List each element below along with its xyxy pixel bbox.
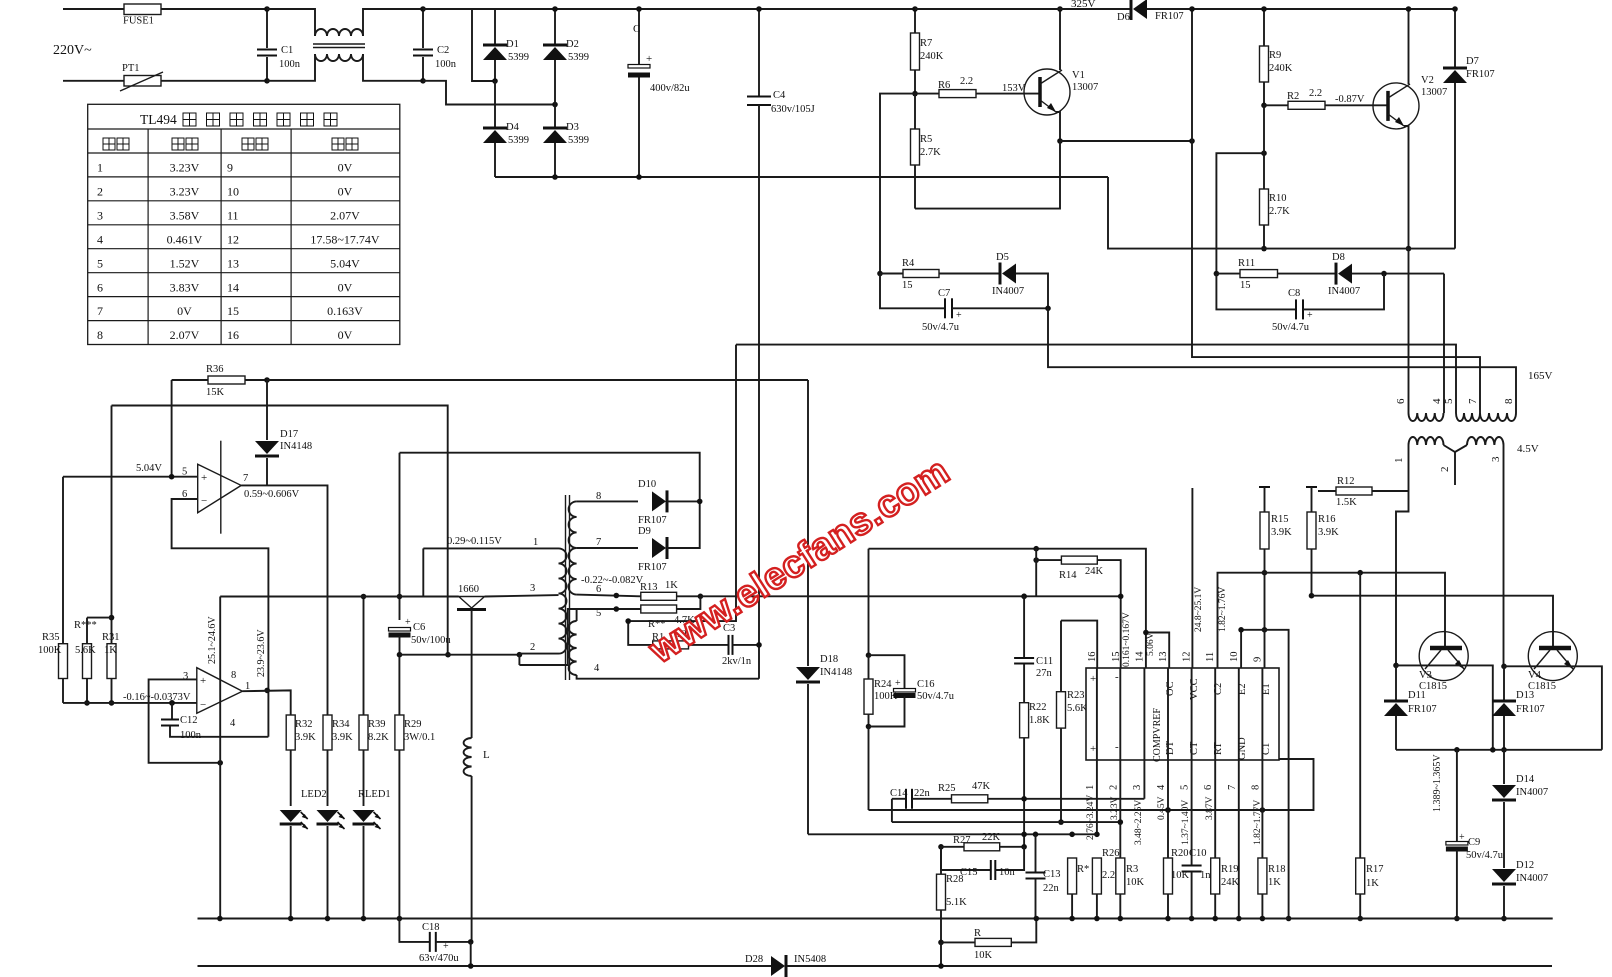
wire PT1 to C1 bottom — [161, 80, 267, 82]
capacitor C4 — [747, 6, 815, 679]
svg-text:1K: 1K — [104, 645, 117, 656]
wire 1660 cathode to L — [471, 610, 473, 738]
fuse FUSE1 — [123, 4, 161, 27]
svg-text:R7: R7 — [920, 38, 932, 49]
svg-text:2kv/1n: 2kv/1n — [722, 656, 752, 667]
label T1 pin 4 — [1431, 398, 1443, 404]
svg-text:-: - — [1115, 741, 1119, 753]
resistor R12 — [1318, 476, 1409, 508]
svg-text:C11: C11 — [1036, 656, 1053, 667]
svg-text:R35: R35 — [42, 632, 60, 643]
wire op-amp1 output to R34 column — [241, 485, 327, 715]
node R22 bottom row A — [1021, 796, 1027, 802]
diode D9 — [638, 499, 703, 573]
resistor R39 — [359, 594, 389, 806]
capacitor C16 — [869, 655, 955, 726]
svg-text:13: 13 — [227, 256, 239, 270]
label pin2 voltage 3.23V — [1110, 796, 1120, 820]
wire D8 output to transformer pin 4 stem — [1443, 274, 1445, 413]
svg-text:D10: D10 — [638, 479, 656, 490]
svg-text:3.23V: 3.23V — [1110, 796, 1120, 820]
node pin15 row junction — [1118, 594, 1124, 600]
wire T2 pin 4 row to C4 column — [577, 675, 759, 679]
svg-text:50v/4.7u: 50v/4.7u — [922, 322, 960, 333]
svg-text:R11: R11 — [1238, 258, 1255, 269]
svg-text:50v/100u: 50v/100u — [411, 635, 451, 646]
svg-text:2.07V: 2.07V — [170, 328, 200, 342]
label -0.22~-0.082V — [581, 575, 644, 586]
svg-text:R4: R4 — [902, 258, 915, 269]
wire row 654 C6 bottom to T2 pin2 path — [400, 652, 523, 665]
resistor R3 — [1116, 858, 1145, 921]
transistor V2 13007 — [1373, 75, 1447, 129]
wire 5.04V input row — [63, 474, 198, 480]
wire V2 collector to top rail — [1406, 6, 1412, 84]
resistor R32 — [286, 715, 316, 806]
svg-text:3.9K: 3.9K — [332, 732, 353, 743]
common-mode choke T0 — [313, 29, 365, 61]
svg-text:R20: R20 — [1171, 848, 1189, 859]
svg-text:R18: R18 — [1268, 864, 1286, 875]
svg-text:15: 15 — [1240, 280, 1251, 291]
wire R36 row to D18 column — [264, 377, 808, 383]
capacitor C15 — [941, 847, 1024, 880]
svg-text:D28: D28 — [745, 954, 763, 965]
svg-text:5399: 5399 — [568, 135, 589, 146]
wire negative rail step down to emitter row — [1108, 177, 1455, 249]
label pin6 voltage 3.87V — [1205, 796, 1215, 820]
svg-text:7: 7 — [97, 304, 103, 318]
wire R13 node to pin15 row — [698, 594, 1121, 600]
svg-text:10: 10 — [1229, 652, 1240, 663]
svg-text:TL494: TL494 — [140, 112, 177, 127]
resistor R5 — [911, 94, 942, 209]
label pin1 voltage 2.76~3.24V — [1086, 795, 1096, 840]
svg-text:IN4148: IN4148 — [280, 441, 312, 452]
svg-text:R5: R5 — [920, 134, 932, 145]
label LED2 — [301, 789, 327, 800]
svg-text:D14: D14 — [1516, 774, 1535, 785]
diode D14 — [1492, 750, 1548, 868]
svg-text:D2: D2 — [566, 39, 579, 50]
resistor R23 — [1057, 621, 1089, 825]
svg-text:FR107: FR107 — [1155, 11, 1184, 22]
wire C1 top to choke top winding — [267, 9, 315, 36]
svg-text:R24: R24 — [874, 679, 892, 690]
svg-text:IN4148: IN4148 — [820, 667, 852, 678]
svg-text:24K: 24K — [1085, 566, 1104, 577]
transistor V1 13007 — [1024, 69, 1098, 115]
svg-text:D9: D9 — [638, 526, 651, 537]
thyristor 1660 — [457, 584, 486, 610]
svg-text:LED2: LED2 — [301, 789, 327, 800]
svg-text:C6: C6 — [413, 622, 425, 633]
svg-text:4: 4 — [1156, 784, 1167, 790]
label 25.1~24.6V — [207, 616, 218, 664]
svg-text:10: 10 — [227, 184, 239, 198]
transistor V3 C1815 — [1419, 632, 1468, 692]
svg-text:24.8~25.1V: 24.8~25.1V — [1194, 587, 1204, 632]
svg-text:8: 8 — [97, 328, 103, 342]
svg-text:1.82~1.76V: 1.82~1.76V — [1218, 587, 1228, 632]
wire R24 column upper — [866, 549, 872, 658]
svg-text:22n: 22n — [914, 788, 931, 799]
svg-text:1K: 1K — [1268, 877, 1281, 888]
svg-text:5.6K: 5.6K — [1067, 703, 1088, 714]
svg-text:RLED1: RLED1 — [358, 789, 391, 800]
op-amp U1A — [182, 441, 248, 534]
resistor R14 — [1033, 549, 1120, 668]
svg-text:R28: R28 — [946, 874, 964, 885]
node R29 ground — [397, 916, 403, 922]
svg-text:3: 3 — [1132, 785, 1143, 790]
svg-text:15: 15 — [902, 280, 913, 291]
svg-text:1K: 1K — [1366, 878, 1379, 889]
svg-text:OC: OC — [1165, 681, 1176, 696]
svg-text:R9: R9 — [1269, 50, 1281, 61]
wire T2 pin 6 row R13 net — [577, 593, 641, 599]
capacitor C2 — [413, 6, 457, 83]
svg-text:D13: D13 — [1516, 690, 1534, 701]
svg-text:23.9~23.6V: 23.9~23.6V — [256, 629, 267, 677]
svg-text:2.7K: 2.7K — [920, 147, 941, 158]
svg-text:R***: R*** — [74, 620, 97, 631]
svg-text:1: 1 — [97, 161, 103, 175]
svg-text:FR107: FR107 — [1408, 704, 1437, 715]
label 165V — [1528, 370, 1553, 382]
svg-text:240K: 240K — [920, 51, 944, 62]
wire T1 pin 3 to D13 node — [1503, 445, 1505, 666]
svg-text:240K: 240K — [1269, 63, 1293, 74]
diode D17 — [255, 380, 312, 485]
wire R36 left to 5.04V node — [171, 380, 173, 477]
svg-text:-0.16~-0.0373V: -0.16~-0.0373V — [123, 692, 191, 703]
svg-text:3: 3 — [1490, 456, 1502, 462]
svg-text:0.161~0.167V: 0.161~0.167V — [1122, 612, 1132, 667]
svg-text:8: 8 — [1503, 398, 1515, 404]
wire pin 12 VCC stub — [1191, 488, 1193, 668]
svg-text:+: + — [956, 310, 962, 321]
svg-text:C12: C12 — [180, 715, 198, 726]
wire pin16 row to R23 top — [1061, 621, 1097, 668]
svg-text:0V: 0V — [338, 328, 353, 342]
resistor R19 — [1211, 858, 1240, 921]
wire T1 pin 6 stem from V2 emitter node — [1408, 249, 1410, 413]
svg-text:DT: DT — [1165, 740, 1176, 755]
resistor R36 — [172, 364, 267, 398]
svg-text:5: 5 — [1180, 785, 1191, 790]
resistor R6 — [915, 76, 1040, 98]
svg-text:2: 2 — [1108, 785, 1119, 790]
svg-text:3: 3 — [97, 208, 103, 222]
svg-text:COMPVREF: COMPVREF — [1152, 708, 1163, 762]
svg-text:R32: R32 — [295, 719, 313, 730]
wire pin2 Z path to pin 5 row — [519, 609, 576, 665]
svg-text:+: + — [201, 472, 207, 484]
diode D1 — [483, 9, 529, 81]
svg-text:1660: 1660 — [458, 584, 479, 595]
svg-text:6: 6 — [1203, 785, 1214, 790]
diode D3 — [543, 105, 589, 178]
label T2 pin 4 — [594, 663, 600, 674]
resistor Rxx 4.7K feedback — [641, 596, 701, 630]
wire row D comp net — [808, 832, 1097, 838]
wire drive line to T1 pin 8 from D5 C7 node — [1048, 308, 1516, 413]
wire pin 13 jog to pin 14 — [1143, 630, 1169, 668]
label T2 pin 1 — [533, 537, 538, 548]
wire V2 emitter to emitter row — [1404, 126, 1411, 251]
svg-text:22n: 22n — [1043, 883, 1060, 894]
label pin14 voltage 5.06V — [1146, 632, 1156, 656]
op-amp U1B — [183, 668, 250, 729]
label 5.04V — [136, 463, 162, 474]
svg-text:12: 12 — [227, 232, 239, 246]
resistor R16 — [1306, 487, 1339, 599]
svg-text:D6: D6 — [1117, 12, 1130, 23]
svg-text:50v/4.7u: 50v/4.7u — [917, 691, 955, 702]
node bridge left mid — [492, 78, 498, 84]
svg-text:C7: C7 — [938, 288, 950, 299]
resistor R28 — [937, 847, 968, 945]
wire 1660 to T2 pin 3 — [485, 595, 559, 596]
wire VCC column from top rail — [1189, 6, 1480, 413]
svg-text:50v/4.7u: 50v/4.7u — [1272, 322, 1310, 333]
wire top rail bridge section — [472, 8, 915, 10]
svg-text:0.461V: 0.461V — [167, 232, 203, 246]
svg-text:8: 8 — [596, 491, 601, 502]
label pin15 voltage 0.161~0.167V — [1122, 612, 1132, 667]
resistor R 10K bottom — [941, 919, 1036, 962]
svg-text:3.58V: 3.58V — [170, 208, 200, 222]
svg-text:5399: 5399 — [508, 135, 529, 146]
diode D2 — [543, 6, 589, 104]
node R7 R6 R5 junction — [912, 91, 918, 97]
svg-text:D7: D7 — [1466, 56, 1479, 67]
svg-text:220V~: 220V~ — [53, 43, 92, 58]
IC U1 internal labels top row — [1090, 671, 1272, 762]
transformer T2 secondary lower winding — [569, 621, 577, 675]
svg-text:C2: C2 — [437, 45, 449, 56]
svg-text:C: C — [633, 23, 640, 35]
svg-text:1.52V: 1.52V — [170, 256, 200, 270]
svg-text:R10: R10 — [1269, 193, 1287, 204]
svg-text:R15: R15 — [1271, 514, 1289, 525]
capacitor C11 — [1014, 656, 1053, 703]
label pin8 voltage 1.82~1.77V — [1253, 800, 1263, 845]
svg-text:27n: 27n — [1036, 668, 1053, 679]
label 220V~ — [53, 43, 92, 58]
LED 1 — [280, 810, 308, 921]
resistor R29 — [395, 655, 435, 919]
wire V1 emitter row to VCC column — [1060, 138, 1195, 144]
svg-text:24K: 24K — [1221, 877, 1240, 888]
label pin3 voltage 3.48~2.25V — [1134, 800, 1144, 845]
svg-text:D17: D17 — [280, 429, 298, 440]
svg-text:1n: 1n — [1200, 870, 1211, 881]
diode D4 — [483, 81, 529, 177]
svg-text:R36: R36 — [206, 364, 224, 375]
svg-text:50v/4.7u: 50v/4.7u — [1466, 850, 1504, 861]
svg-text:5399: 5399 — [508, 52, 529, 63]
svg-text:+: + — [1090, 673, 1096, 685]
svg-text:47K: 47K — [972, 781, 991, 792]
transformer T1 secondary windings — [1409, 437, 1504, 452]
svg-text:D18: D18 — [820, 654, 838, 665]
resistor R27 — [938, 832, 1027, 851]
capacitor C10 — [1182, 848, 1212, 921]
svg-text:13007: 13007 — [1072, 82, 1098, 93]
svg-text:-0.22~-0.082V: -0.22~-0.082V — [581, 575, 644, 586]
label pin12 voltage 24.8~25.1V — [1194, 587, 1204, 632]
wire V4 emitter row — [1504, 666, 1602, 750]
svg-text:R13: R13 — [640, 582, 658, 593]
label 0.59~0.606V — [244, 489, 300, 500]
svg-text:R2: R2 — [1287, 91, 1299, 102]
svg-text:16: 16 — [1087, 652, 1098, 663]
svg-text:8: 8 — [231, 670, 236, 681]
capacitor C9 — [1446, 750, 1504, 922]
svg-text:14: 14 — [1134, 651, 1145, 662]
svg-text:1.5K: 1.5K — [1336, 497, 1357, 508]
capacitor C13 — [1026, 834, 1061, 921]
svg-text:63v/470u: 63v/470u — [419, 953, 459, 964]
wire bridge bottom negative rail — [495, 174, 1108, 180]
svg-text:100n: 100n — [180, 730, 202, 741]
svg-text:R17: R17 — [1366, 864, 1384, 875]
svg-text:R*: R* — [1077, 864, 1089, 875]
wire AC line bottom from 220V input to PT1 — [63, 80, 124, 82]
wire C1 bottom to choke bottom winding — [267, 54, 315, 81]
svg-text:11: 11 — [227, 208, 239, 222]
wire pin 3 column — [1143, 668, 1145, 799]
svg-text:V3: V3 — [1419, 670, 1432, 681]
svg-text:2.2: 2.2 — [960, 76, 973, 87]
svg-text:C10: C10 — [1189, 848, 1207, 859]
wire ground rail 2 left of D28 — [198, 965, 772, 967]
svg-text:R: R — [974, 928, 981, 939]
resistor R10 — [1260, 105, 1291, 251]
wire R24 bottom to row B — [868, 727, 870, 811]
svg-text:2.07V: 2.07V — [330, 208, 360, 222]
svg-text:7: 7 — [243, 473, 248, 484]
label 153V base of V1 — [1002, 83, 1026, 94]
wire R16 row to V4 base — [1312, 596, 1554, 646]
label -0.16~-0.0373V — [123, 692, 191, 703]
svg-text:153V: 153V — [1002, 83, 1026, 94]
LED 3 RLED1 — [353, 810, 381, 921]
svg-text:165V: 165V — [1528, 370, 1553, 382]
svg-text:6: 6 — [596, 584, 601, 595]
wire pin 4 column — [1167, 668, 1169, 858]
svg-text:+: + — [200, 675, 206, 687]
IC U1 TL494 body — [1086, 668, 1279, 760]
svg-text:0V: 0V — [338, 184, 353, 198]
svg-text:8.2K: 8.2K — [368, 732, 389, 743]
wire AC feed to bridge left mid node — [423, 9, 495, 81]
wire row C pin2 net — [892, 821, 1120, 823]
capacitor C3 — [722, 623, 762, 667]
svg-text:0.163V: 0.163V — [327, 304, 363, 318]
svg-text:11: 11 — [1205, 652, 1216, 662]
svg-text:400v/82u: 400v/82u — [650, 83, 690, 94]
resistor R25 — [912, 781, 1144, 803]
svg-text:10K: 10K — [974, 950, 993, 961]
svg-text:3.23V: 3.23V — [170, 161, 200, 175]
svg-text:R6: R6 — [938, 80, 950, 91]
label pin11 voltage 1.82~1.76V — [1218, 587, 1228, 632]
label 1.389~1.365V — [1432, 754, 1443, 812]
svg-text:FR107: FR107 — [1466, 69, 1495, 80]
inductor L — [464, 738, 490, 942]
label T1 pin 7 — [1467, 398, 1479, 404]
svg-text:C14: C14 — [890, 788, 908, 799]
svg-text:D5: D5 — [996, 252, 1009, 263]
wire op-amp2 inverting row — [63, 700, 197, 706]
svg-text:5.1K: 5.1K — [946, 897, 967, 908]
wire R10 top to R11 drop — [1216, 153, 1264, 273]
svg-text:1: 1 — [1085, 785, 1096, 790]
svg-text:15: 15 — [227, 304, 239, 318]
capacitor C6 — [389, 594, 452, 658]
resistor R24 — [864, 655, 898, 729]
svg-text:R39: R39 — [368, 719, 386, 730]
svg-text:V2: V2 — [1421, 75, 1434, 86]
svg-text:C1: C1 — [281, 45, 293, 56]
svg-text:D1: D1 — [506, 39, 519, 50]
svg-text:+: + — [443, 941, 449, 952]
svg-text:R34: R34 — [332, 719, 350, 730]
table TL494 operating voltages — [88, 104, 400, 344]
svg-text:V1: V1 — [1072, 70, 1085, 81]
label T2 pin 8 — [596, 491, 601, 502]
svg-text:25.1~24.6V: 25.1~24.6V — [207, 616, 218, 664]
svg-text:2: 2 — [97, 184, 103, 198]
wire op-amp1 inverting input loop — [172, 499, 269, 737]
svg-text:R29: R29 — [404, 719, 422, 730]
svg-text:V4: V4 — [1528, 670, 1542, 681]
wire op-amp2 noninverting loop to supply column — [149, 679, 223, 765]
resistor R26 — [1092, 848, 1123, 921]
svg-text:1.8K: 1.8K — [1029, 715, 1050, 726]
wire line3 to D9 D10 node — [400, 453, 700, 500]
svg-text:R12: R12 — [1337, 476, 1355, 487]
svg-text:PT1: PT1 — [122, 63, 140, 74]
svg-text:4: 4 — [594, 663, 600, 674]
svg-text:630v/105J: 630v/105J — [771, 104, 815, 115]
wire V1 emitter node — [1056, 112, 1063, 144]
svg-text:+: + — [405, 617, 411, 628]
label 325V — [1071, 0, 1096, 10]
wire pin 10 row to ground drop — [1238, 627, 1291, 921]
resistor R17 — [1356, 573, 1384, 922]
transistor V4 C1815 — [1528, 632, 1577, 692]
svg-text:0V: 0V — [338, 161, 353, 175]
svg-text:4.5V: 4.5V — [1517, 443, 1539, 455]
svg-text:+: + — [1307, 310, 1313, 321]
resistor R7 — [911, 6, 944, 93]
svg-text:5399: 5399 — [568, 52, 589, 63]
wire choke bottom to C2 bottom — [363, 54, 423, 81]
svg-text:1: 1 — [1393, 458, 1405, 464]
svg-text:R19: R19 — [1221, 864, 1239, 875]
svg-text:3: 3 — [530, 583, 535, 594]
wire row 596 opamp columns to 1660 — [220, 596, 459, 598]
svg-text:2.2: 2.2 — [1309, 88, 1322, 99]
svg-text:1K: 1K — [665, 580, 678, 591]
svg-text:IN4007: IN4007 — [1328, 286, 1360, 297]
label T2 pin 2 — [530, 642, 535, 653]
label pin5 voltage 1.37~1.40V — [1181, 800, 1191, 845]
